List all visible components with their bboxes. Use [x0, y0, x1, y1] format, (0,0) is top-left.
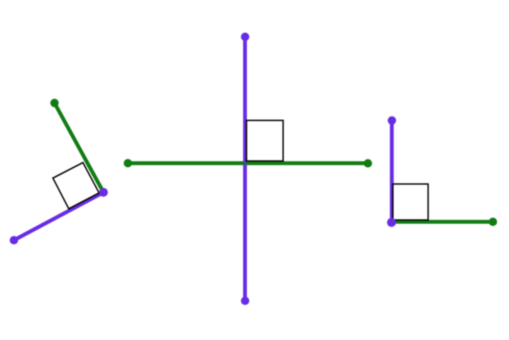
middle figure: crossing blend patch [243, 161, 247, 165]
middle figure: green left endpoint dot [124, 159, 132, 167]
middle figure: purple top endpoint dot [241, 33, 249, 41]
left figure: purple segment [14, 192, 104, 240]
middle figure: green right endpoint dot [364, 159, 372, 167]
right figure: green horizontal segment [392, 220, 493, 224]
right figure: purple corner dot [387, 218, 396, 227]
right figure: green right endpoint dot [489, 218, 497, 226]
left figure: green segment [55, 103, 104, 192]
middle figure: right-angle marker square [247, 120, 284, 161]
middle figure: purple bottom endpoint dot [241, 297, 249, 305]
middle figure: purple vertical line [243, 37, 247, 301]
right figure: purple vertical segment [390, 121, 394, 223]
middle figure: green horizontal line [128, 161, 368, 165]
left figure: right-angle marker square [53, 163, 99, 209]
left figure: purple vertex dot [99, 188, 108, 197]
left figure: green endpoint dot [50, 99, 58, 107]
right figure: right-angle marker square [393, 184, 428, 220]
left figure: purple endpoint dot [10, 236, 18, 244]
right figure: purple top endpoint dot [388, 116, 396, 124]
